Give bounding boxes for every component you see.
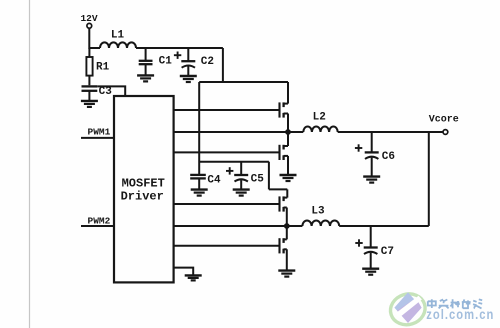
svg-text:12V: 12V: [80, 13, 97, 24]
transistor Q3: [280, 189, 288, 226]
wire 12V rail: [199, 81, 288, 83]
svg-text:zol.com.cn: zol.com.cn: [426, 307, 494, 322]
wire switch node 1: [174, 131, 304, 133]
inductor L1: [100, 42, 136, 48]
wire gate1: [174, 109, 280, 111]
polarity +: [355, 239, 362, 246]
wire: [198, 82, 200, 175]
wire: [339, 225, 429, 227]
resistor R1: [86, 48, 92, 85]
IC U1 MOSFET Driver: [114, 96, 174, 282]
polarity +: [355, 144, 362, 151]
wire PWM2: [81, 225, 114, 227]
wire: [338, 131, 443, 133]
capacitor C4: [190, 175, 206, 190]
wire: [89, 28, 100, 48]
transistor Q4: [280, 226, 287, 271]
inductor L2: [303, 126, 337, 132]
ground: [362, 269, 379, 275]
svg-text:C5: C5: [251, 174, 265, 186]
ground: [81, 101, 98, 107]
ground: [137, 75, 154, 81]
polarity +: [226, 167, 233, 174]
svg-text:C2: C2: [201, 56, 214, 68]
ground: [233, 190, 250, 196]
wire: [174, 268, 194, 276]
wire switch node 2: [174, 225, 303, 227]
wire: [268, 162, 270, 190]
wire: [222, 48, 224, 82]
wire: [136, 47, 223, 49]
capacitor C6: [365, 132, 379, 176]
wire gate4: [174, 245, 280, 247]
svg-text:Vcore: Vcore: [429, 115, 459, 126]
watermark text 中关村在线: [428, 299, 482, 308]
terminal Vcore: [443, 130, 448, 135]
svg-text:PWM1: PWM1: [88, 126, 111, 137]
svg-text:C3: C3: [99, 86, 113, 98]
page divider (decorative): [29, 0, 31, 328]
wire: [428, 132, 430, 226]
ground: [185, 275, 202, 280]
wire gate2: [174, 151, 280, 153]
polarity +: [174, 52, 181, 59]
wire: [269, 188, 287, 190]
inductor L3: [302, 220, 339, 226]
junction: [285, 129, 291, 135]
svg-text:C7: C7: [381, 246, 394, 258]
svg-text:L3: L3: [311, 206, 325, 218]
watermark ZOL logo: [386, 289, 429, 328]
capacitor C2: [181, 48, 195, 76]
wire gate3: [174, 203, 280, 205]
svg-text:MOSFET: MOSFET: [122, 177, 165, 191]
transistor Q1: [280, 82, 289, 132]
capacitor C7: [364, 226, 378, 269]
wire: [199, 161, 269, 163]
wire PWM1: [81, 137, 114, 139]
capacitor C5: [234, 162, 248, 190]
junction: [284, 223, 290, 229]
svg-text:PWM2: PWM2: [88, 215, 111, 226]
capacitor C1: [139, 48, 153, 75]
transistor Q2: [280, 132, 289, 175]
ground: [191, 190, 208, 196]
ground: [278, 271, 295, 277]
svg-text:L1: L1: [111, 29, 125, 41]
svg-text:R1: R1: [96, 61, 110, 73]
ground: [280, 175, 297, 181]
terminal 12V: [87, 23, 92, 28]
svg-text:C6: C6: [382, 151, 395, 163]
svg-text:C1: C1: [159, 55, 173, 67]
capacitor C3: [82, 86, 98, 101]
svg-text:Driver: Driver: [121, 190, 164, 204]
ground: [363, 177, 380, 183]
svg-text:L2: L2: [313, 112, 326, 124]
wire: [97, 86, 125, 96]
ground: [180, 76, 197, 82]
svg-text:C4: C4: [207, 175, 221, 187]
